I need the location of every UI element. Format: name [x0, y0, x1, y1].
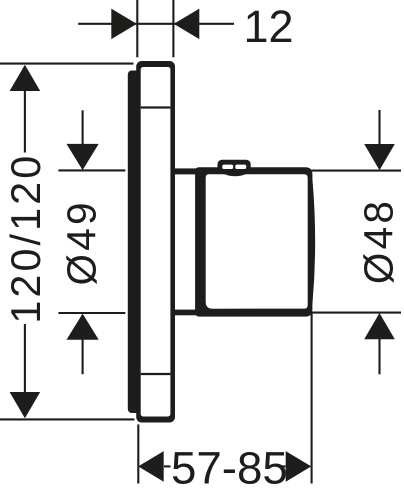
svg-text:120/120: 120/120: [3, 153, 49, 324]
dim 120/120 line upper segment: [24, 89, 26, 153]
dim 12 extension line right: [172, 0, 174, 57]
dim 120/120 line lower segment: [24, 324, 26, 394]
dim 12 arrow right-pointing: [111, 9, 137, 39]
plate inner line top: [141, 106, 171, 108]
plate inner line bottom: [141, 373, 171, 375]
dim D49 top extension line: [58, 169, 125, 171]
escutcheon plate body: [136, 61, 175, 423]
dim 57-85 right extension line: [311, 314, 313, 484]
dim 57-85 arrow left-pointing: [138, 451, 164, 482]
dim 120/120 bottom extension line: [0, 418, 135, 420]
button tab (black): [218, 160, 251, 173]
handle groove bump under button: [221, 173, 250, 177]
dim D48 arrow up: [364, 313, 395, 339]
sleeve bottom line: [173, 310, 196, 316]
dim 57-85 arrow right-pointing: [286, 451, 312, 482]
escutcheon plate inner face: [141, 67, 171, 417]
dim D49 arrow up: [67, 314, 99, 340]
dim D49 bottom extension line: [58, 312, 125, 314]
dim D49 lower shaft: [82, 339, 84, 374]
flange bar (wall seal behind plate): [128, 71, 141, 414]
dim D49 arrow down: [67, 144, 99, 170]
dim D48 lower shaft: [378, 338, 380, 374]
button tab slit left: [222, 165, 233, 169]
dim D48 bottom extension line: [303, 312, 401, 314]
svg-text:Ø48: Ø48: [355, 198, 401, 284]
dim 12 arrow left-pointing: [174, 9, 200, 39]
dim D48 arrow down: [364, 144, 395, 170]
dim 120/120 arrow up: [10, 65, 41, 91]
dim 12 dimension line: [78, 23, 234, 25]
dim D48 top extension line: [312, 170, 402, 172]
dim 57-85 right dash: [282, 465, 286, 467]
svg-text:12: 12: [243, 1, 293, 52]
handle knob inner face (white): [206, 174, 308, 309]
dim 57-85 left dash: [164, 465, 171, 467]
dim D49 upper shaft: [82, 110, 84, 145]
dim 120/120 top extension line: [0, 63, 134, 65]
handle knob body (black, incl. stop ring band): [195, 167, 315, 316]
button tab slit right: [235, 165, 246, 169]
svg-text:Ø49: Ø49: [59, 199, 105, 285]
svg-text:57-85: 57-85: [171, 443, 288, 492]
sleeve top line: [173, 168, 196, 174]
dim 120/120 arrow down: [10, 392, 41, 418]
dim 12 extension line left: [136, 0, 138, 57]
dim 57-85 left extension line: [137, 424, 139, 483]
dim D48 upper shaft: [378, 110, 380, 145]
